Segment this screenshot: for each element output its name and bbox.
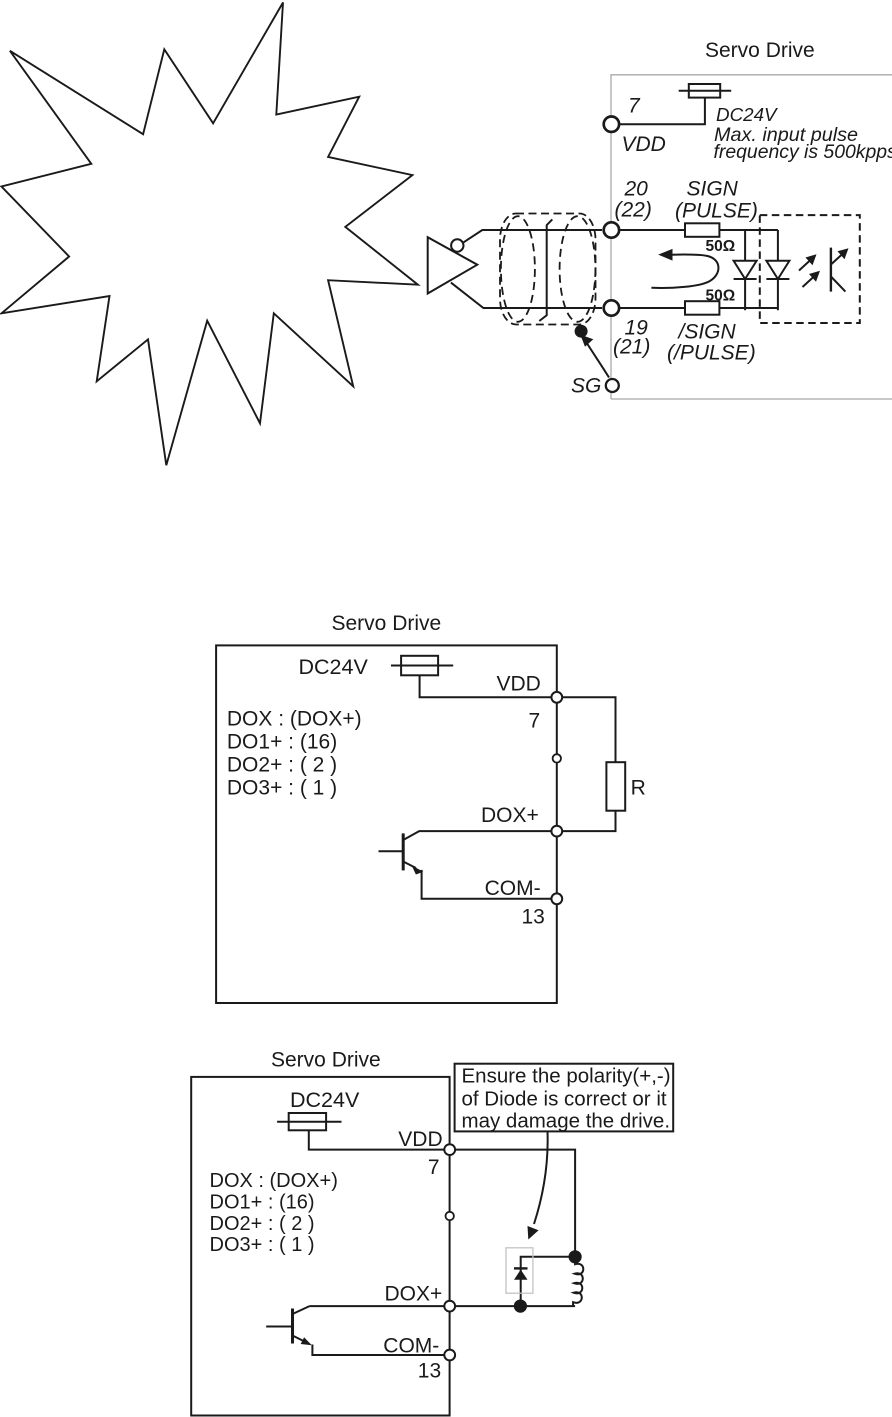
diode D2 optocoupler LED xyxy=(766,230,789,310)
junction dot bottom xyxy=(514,1300,527,1313)
cable sheath dashed stadium xyxy=(500,214,596,325)
svg-text:DOX+: DOX+ xyxy=(481,804,539,827)
svg-text:50Ω: 50Ω xyxy=(706,238,736,255)
mid pin circle (bottom) xyxy=(446,1212,454,1220)
pin DOX+ circle (middle) xyxy=(551,826,562,837)
svg-text:DOX+: DOX+ xyxy=(385,1283,443,1306)
wire pin20 to resistor xyxy=(620,229,685,231)
external wire VDD to relay branch xyxy=(456,1150,575,1257)
svg-text:DC24V: DC24V xyxy=(716,104,778,125)
twisted pair crossover xyxy=(539,219,552,321)
svg-text:DO1+ : (16): DO1+ : (16) xyxy=(227,731,337,754)
note arrow to diode xyxy=(528,1132,548,1240)
svg-text:DO3+ : ( 1 ): DO3+ : ( 1 ) xyxy=(227,777,337,800)
svg-text:Ensure the polarity(+,-): Ensure the polarity(+,-) xyxy=(462,1065,671,1088)
svg-text:of Diode is correct or it: of Diode is correct or it xyxy=(462,1087,667,1110)
wire VDD to resistor R xyxy=(563,697,616,762)
svg-text:7: 7 xyxy=(628,94,641,117)
transistor Q1 (middle) xyxy=(379,831,552,899)
resistor 50ohm top xyxy=(685,223,719,237)
svg-text:Servo Drive: Servo Drive xyxy=(332,612,442,635)
diode D1 xyxy=(734,230,757,310)
wire resistor bottom to LED xyxy=(719,307,778,309)
wire fuse to VDD pin (bottom) xyxy=(309,1130,444,1149)
svg-text:DO1+ : (16): DO1+ : (16) xyxy=(210,1192,315,1214)
SG arrow xyxy=(580,335,609,378)
svg-text:COM-: COM- xyxy=(383,1335,439,1358)
servo drive box (top) xyxy=(611,75,892,399)
wire driver top output xyxy=(464,230,602,242)
pin 19 circle xyxy=(604,300,619,315)
svg-text:SIGN: SIGN xyxy=(687,178,739,201)
svg-text:VDD: VDD xyxy=(398,1128,442,1151)
fuse F3 (bottom) xyxy=(277,1113,341,1130)
wire resistor top to LED xyxy=(719,229,778,231)
svg-text:frequency is 500kpps: frequency is 500kpps xyxy=(714,141,892,163)
resistor R xyxy=(606,762,625,811)
relay coil xyxy=(573,1257,583,1306)
wire driver bottom output xyxy=(451,283,602,308)
svg-text:(22): (22) xyxy=(615,199,652,222)
phototransistor xyxy=(831,248,849,292)
pin 7 circle xyxy=(604,117,619,132)
light arrow 1 xyxy=(799,254,817,270)
svg-text:DO2+ : ( 2 ): DO2+ : ( 2 ) xyxy=(227,754,337,777)
svg-text:/SIGN: /SIGN xyxy=(677,321,737,344)
pin VDD circle (middle) xyxy=(551,692,562,703)
svg-text:DOX : (DOX+): DOX : (DOX+) xyxy=(210,1170,338,1192)
servo drive box (bottom) xyxy=(191,1077,449,1416)
current loop arrow xyxy=(651,249,718,288)
resistor 50ohm bottom xyxy=(685,301,719,315)
svg-text:(PULSE): (PULSE) xyxy=(675,200,758,223)
svg-text:7: 7 xyxy=(529,709,541,732)
svg-text:13: 13 xyxy=(522,905,545,928)
SG circle xyxy=(606,379,619,392)
fuse F1 (top) xyxy=(679,84,732,98)
pin DOX+ circle (bottom) xyxy=(444,1301,455,1312)
shield drain dot xyxy=(575,325,588,338)
pin 20 circle xyxy=(604,222,619,237)
svg-text:may damage the drive.: may damage the drive. xyxy=(462,1110,671,1133)
flyback diode gray box xyxy=(506,1248,533,1293)
pin COM- circle (bottom) xyxy=(444,1350,455,1361)
svg-text:VDD: VDD xyxy=(497,673,541,696)
diode branch top wire xyxy=(521,1257,575,1306)
svg-text:SG: SG xyxy=(571,375,601,398)
mid pin circle (middle) xyxy=(553,754,561,762)
wire resistor R to DOX+ xyxy=(563,811,616,831)
svg-text:(/PULSE): (/PULSE) xyxy=(667,342,756,365)
svg-text:7: 7 xyxy=(428,1156,440,1179)
light arrow 2 xyxy=(803,271,821,287)
optocoupler dashed box xyxy=(760,215,860,323)
transistor Q2 (bottom) xyxy=(266,1306,444,1355)
wire pin19 to resistor xyxy=(620,307,685,309)
svg-text:VDD: VDD xyxy=(622,133,666,156)
pin VDD circle (bottom) xyxy=(444,1144,455,1155)
inversion bubble xyxy=(451,239,463,251)
svg-text:(21): (21) xyxy=(613,336,650,359)
svg-text:DO2+ : ( 2 ): DO2+ : ( 2 ) xyxy=(210,1213,315,1235)
servo drive box (middle) xyxy=(216,645,557,1003)
cable loop ellipse 1 xyxy=(501,216,535,322)
wire fuse to VDD pin (middle) xyxy=(420,675,551,697)
svg-text:Servo Drive: Servo Drive xyxy=(271,1049,381,1072)
svg-text:DOX : (DOX+): DOX : (DOX+) xyxy=(227,708,362,731)
svg-text:20: 20 xyxy=(624,178,649,201)
pin COM- circle (middle) xyxy=(551,893,562,904)
svg-text:50Ω: 50Ω xyxy=(706,287,736,304)
fuse F2 (middle) xyxy=(391,656,453,676)
svg-text:Servo Drive: Servo Drive xyxy=(705,39,815,62)
svg-text:DO3+ : ( 1 ): DO3+ : ( 1 ) xyxy=(210,1234,315,1256)
starburst callout xyxy=(2,3,418,466)
note callout box xyxy=(455,1064,674,1132)
svg-text:COM-: COM- xyxy=(485,877,541,900)
flyback diode D xyxy=(514,1268,528,1279)
svg-text:DC24V: DC24V xyxy=(290,1088,360,1112)
svg-text:13: 13 xyxy=(418,1360,441,1383)
junction dot top xyxy=(569,1250,582,1263)
wire pin7 to fuse xyxy=(620,98,705,125)
svg-text:DC24V: DC24V xyxy=(299,655,369,679)
line driver triangle xyxy=(428,237,478,293)
DOX+ wire (bottom) xyxy=(310,1305,576,1307)
svg-text:R: R xyxy=(631,777,646,800)
cable loop ellipse 2 xyxy=(560,216,596,322)
